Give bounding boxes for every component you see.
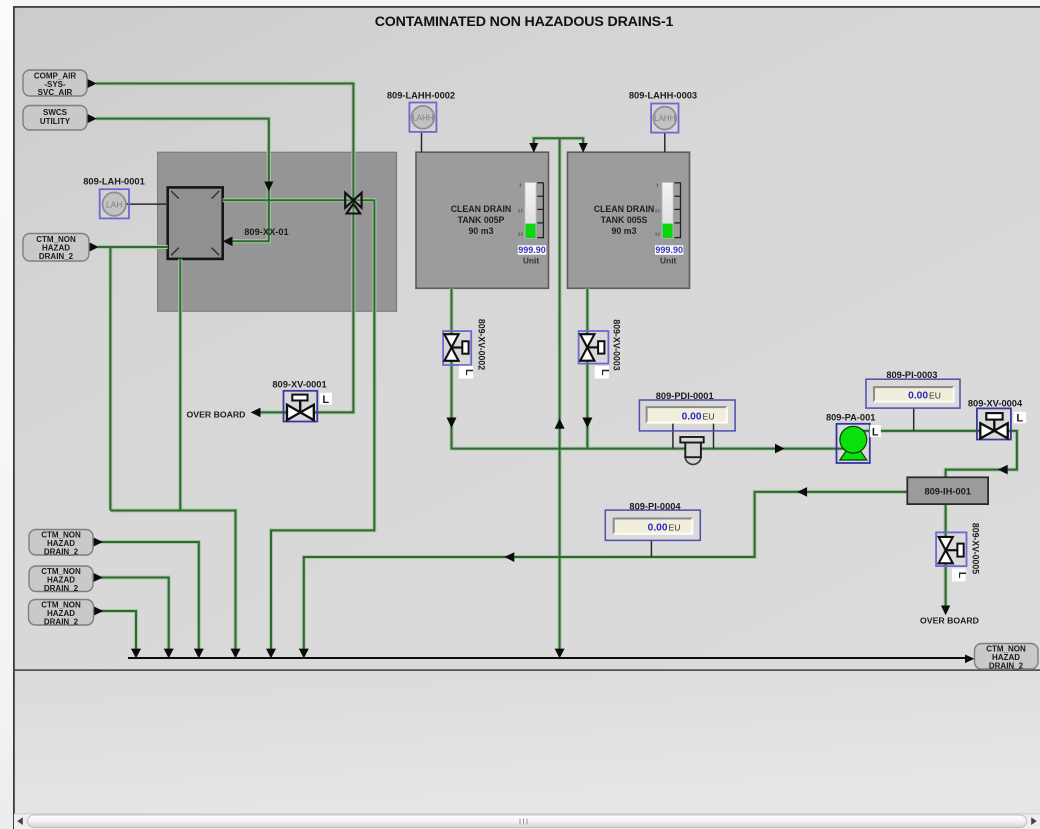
svg-text:809-PA-001: 809-PA-001 xyxy=(826,413,875,423)
node SWCS UTILITY xyxy=(23,106,87,131)
svg-text:DRAIN_2: DRAIN_2 xyxy=(39,252,74,261)
svg-text:DRAIN_2: DRAIN_2 xyxy=(44,584,79,593)
wire CTM drain label 1 to manifold xyxy=(99,542,199,654)
wire CTM drain label 2 to manifold xyxy=(99,578,169,655)
valve 809-XV-0004 group xyxy=(977,408,1026,439)
svg-text:L: L xyxy=(872,426,879,438)
svg-text:809-PI-0003: 809-PI-0003 xyxy=(886,370,937,380)
wire CTM drain label 3 to manifold xyxy=(99,611,136,654)
wire IH-001 bottom drain to overboard xyxy=(945,504,947,612)
lower area below frame xyxy=(14,670,1040,814)
svg-text:CLEAN DRAIN: CLEAN DRAIN xyxy=(594,204,655,214)
canvas area inside frame xyxy=(14,7,1040,670)
node CTM_NON HAZAD DRAIN_2 (top, into exchanger) xyxy=(23,234,89,262)
wire tank 005P drain to main suction line xyxy=(452,288,854,448)
manifold drop arrow 5 xyxy=(266,649,276,659)
arrow left on line into IH-001 xyxy=(998,465,1008,475)
svg-text:SVC_AIR: SVC_AIR xyxy=(38,88,73,97)
arrow down into tank 005P xyxy=(529,143,538,153)
svg-text:809-PI-0004: 809-PI-0004 xyxy=(629,501,681,511)
interlock box 809-IH-001 xyxy=(907,477,988,504)
signal line LAHH-0003 to tank 005S xyxy=(664,133,666,153)
valve 809-XV-0005 group (vertical) xyxy=(936,532,968,581)
tank 005S level gauge xyxy=(655,182,683,265)
pump 809-PA-001 xyxy=(837,424,881,463)
wire pump discharge through XV-0004 down to IH-001 xyxy=(853,431,1017,477)
svg-text:LAHH: LAHH xyxy=(412,113,434,122)
wire SWCS utility: right then down into heat exchanger xyxy=(96,119,269,242)
valve 809-XV-0003 group (vertical) xyxy=(579,331,611,379)
valve 809-XV-0002 group (vertical) xyxy=(443,331,475,378)
svg-text:L: L xyxy=(1016,413,1023,425)
svg-text:CLEAN DRAIN: CLEAN DRAIN xyxy=(451,204,512,214)
valve 809-XV-0001 group xyxy=(284,391,332,422)
wire center riser between tanks down to manifold xyxy=(559,138,561,654)
G_SCROLLBAR xyxy=(14,814,1040,829)
readout 809-PI-0004 xyxy=(605,510,700,540)
svg-text:EU: EU xyxy=(929,391,941,401)
svg-text:809-LAHH-0003: 809-LAHH-0003 xyxy=(629,90,697,100)
instrument 809-LAHH-0003 xyxy=(651,104,678,133)
svg-text:999.90: 999.90 xyxy=(518,245,546,255)
node COMP_AIR -SYS- SVC_AIR xyxy=(23,70,87,97)
svg-text:809-XX-01: 809-XX-01 xyxy=(244,227,288,237)
arrow right on pump suction line xyxy=(775,444,785,454)
wire branch down from CTM inlet xyxy=(109,247,111,511)
node CTM_NON HAZAD DRAIN_2 (far right outlet) xyxy=(975,644,1039,671)
wire collector to manifold xyxy=(110,511,235,655)
svg-text:809-XV-0004: 809-XV-0004 xyxy=(968,398,1023,408)
svg-text:Unit: Unit xyxy=(523,256,539,266)
arrow left on IH-001 return xyxy=(797,487,807,497)
instrument tap lines (black) xyxy=(126,132,914,557)
tap PI-0003 xyxy=(913,408,915,431)
tap PDI-0001 right xyxy=(713,423,715,449)
arrow from CTM drain label 1 xyxy=(93,537,103,547)
readout 809-PDI-0001 xyxy=(639,400,735,431)
arrow down to OVER BOARD (bottom right) xyxy=(941,606,950,616)
node CTM_NON HAZAD DRAIN_2 (lower 2) xyxy=(29,566,93,593)
ARROWS xyxy=(87,79,1008,663)
svg-text:809-LAHH-0002: 809-LAHH-0002 xyxy=(387,90,455,100)
svg-text:809-IH-001: 809-IH-001 xyxy=(924,486,971,496)
wire COMP_AIR supply: right then down through 3-way valve to overboard xyxy=(96,84,1017,655)
frame left line xyxy=(13,6,15,829)
manifold drop arrow 3 xyxy=(194,649,204,659)
svg-text:809-XV-0005: 809-XV-0005 xyxy=(971,523,981,574)
svg-text:0.00: 0.00 xyxy=(682,411,702,422)
arrow from CTM drain top label xyxy=(89,242,99,252)
arrow from COMP_AIR label xyxy=(87,79,97,89)
wire CTM drain 2 inlet to heat exchanger xyxy=(98,246,168,248)
svg-text:OVER BOARD: OVER BOARD xyxy=(920,616,979,626)
arrow from SWCS label xyxy=(87,114,97,124)
frame bottom line xyxy=(13,669,1040,671)
manifold arrow right into CTM label xyxy=(965,655,974,664)
heat exchanger 809-XX-01 body xyxy=(168,187,223,259)
wire heat exchanger bottom drain xyxy=(179,259,181,511)
svg-text:809-LAH-0001: 809-LAH-0001 xyxy=(83,177,145,187)
instrument 809-LAH-0001 xyxy=(100,189,129,218)
3-way valve inside enclosure xyxy=(345,193,361,214)
svg-text:L: L xyxy=(322,394,329,406)
svg-text:EU: EU xyxy=(669,523,681,533)
arrow left on lower return line xyxy=(505,552,515,562)
signal line LAH-0001 to heat exchanger xyxy=(126,203,168,205)
instrument 809-LAHH-0002 xyxy=(409,103,436,132)
wire IH-001 return line to manifold xyxy=(304,492,907,654)
big gray enclosure box xyxy=(158,152,397,311)
arrow down into tank 005S xyxy=(579,143,588,153)
tank 005P body xyxy=(416,152,549,288)
svg-text:L: L xyxy=(956,572,968,579)
wire tank feed header xyxy=(534,138,583,149)
svg-text:SWCS: SWCS xyxy=(43,108,68,117)
node CTM_NON HAZAD DRAIN_2 (lower 3) xyxy=(29,600,94,627)
arrow left into heat exchanger 809-XX-01 xyxy=(223,237,233,247)
svg-text:EU: EU xyxy=(703,411,715,421)
arrow down on SWCS drop into exchanger line xyxy=(264,182,273,192)
svg-text:Unit: Unit xyxy=(660,256,676,266)
svg-text:0.00: 0.00 xyxy=(648,523,668,534)
manifold drop arrow 4 xyxy=(231,649,241,659)
left window strip xyxy=(0,0,14,829)
tap PDI-0001 left xyxy=(672,423,674,449)
svg-text:LAH: LAH xyxy=(106,199,123,209)
manifold drop arrow 2 xyxy=(164,649,174,659)
G_PIPES xyxy=(96,84,1017,655)
svg-text:DRAIN_2: DRAIN_2 xyxy=(44,617,79,626)
seal pot on main line xyxy=(680,437,703,464)
svg-text:TANK 005S: TANK 005S xyxy=(601,215,648,225)
arrow from CTM drain label 2 xyxy=(93,573,103,583)
svg-text:OVER BOARD: OVER BOARD xyxy=(187,410,246,420)
svg-text:0.00: 0.00 xyxy=(908,391,928,402)
svg-text:999.90: 999.90 xyxy=(655,245,683,255)
manifold drop arrow 7 xyxy=(555,649,565,659)
svg-text:809-XV-0003: 809-XV-0003 xyxy=(612,319,622,370)
readout 809-PI-0003 xyxy=(866,379,960,408)
manifold drop arrow 1 xyxy=(131,649,141,659)
tank 005P text xyxy=(451,204,512,236)
tank 005S body xyxy=(568,152,690,288)
svg-text:CONTAMINATED NON HAZADOUS DRAI: CONTAMINATED NON HAZADOUS DRAINS-1 xyxy=(375,14,674,30)
svg-text:DRAIN_2: DRAIN_2 xyxy=(44,547,79,556)
bottom manifold black header xyxy=(128,657,966,659)
svg-text:LAHH: LAHH xyxy=(654,114,676,123)
arrow left to OVER BOARD (XV-0001) xyxy=(251,408,261,418)
tank 005P level gauge xyxy=(518,182,546,265)
wire tank 005S drain xyxy=(586,288,588,448)
arrow from CTM drain label 3 xyxy=(94,606,104,616)
signal line LAHH-0002 to tank 005P xyxy=(421,132,423,152)
wire heat exchanger outlet: right through 3-way valve, down, left, down to manifold xyxy=(223,200,375,654)
arrow up on center riser xyxy=(555,418,565,428)
arrow down on tank 005P drain xyxy=(447,418,457,429)
svg-text:UTILITY: UTILITY xyxy=(40,117,71,126)
tap PI-0004 xyxy=(650,540,652,557)
node CTM_NON HAZAD DRAIN_2 (lower 1) xyxy=(29,530,93,557)
svg-text:809-PDI-0001: 809-PDI-0001 xyxy=(656,391,714,401)
svg-text:DRAIN_2: DRAIN_2 xyxy=(989,661,1024,670)
arrow down on tank 005S drain xyxy=(582,418,592,429)
svg-text:90 m3: 90 m3 xyxy=(469,226,494,236)
top window strip xyxy=(14,0,1040,7)
svg-text:90 m3: 90 m3 xyxy=(612,226,637,236)
manifold drop arrow 6 xyxy=(299,649,309,659)
svg-text:L: L xyxy=(463,369,475,376)
tag labels xyxy=(83,90,1023,625)
tank 005S text xyxy=(594,204,655,236)
svg-text:L: L xyxy=(599,369,611,376)
frame top line xyxy=(13,6,1040,8)
svg-text:809-XV-0001: 809-XV-0001 xyxy=(272,380,326,390)
heat exchanger corner marks xyxy=(171,191,219,255)
svg-text:809-XV-0002: 809-XV-0002 xyxy=(477,319,487,370)
svg-text:TANK 005P: TANK 005P xyxy=(458,215,505,225)
